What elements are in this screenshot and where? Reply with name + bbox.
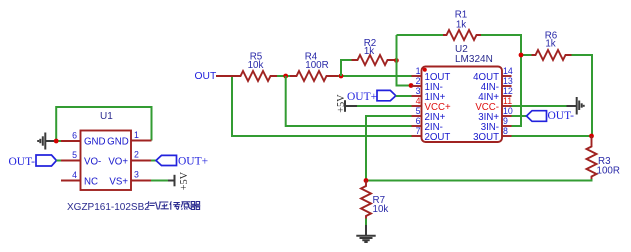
svg-text:11: 11 [503,96,512,106]
svg-text:+5V: +5V [336,94,347,113]
wire: vertical from OUT down to pin7 row [232,76,412,136]
wire: R3 bottom to R7 node [366,179,592,181]
node: junction R4/pin1/R2 [339,74,344,79]
wire: R1 left vertical through R2 junction down to pin2 [397,35,412,86]
pin numbers U1 [72,130,139,180]
svg-text:GND: GND [84,137,106,148]
wire: OUT- flag to pin5 [57,160,63,162]
svg-text:100R: 100R [305,60,328,71]
ground below R7 [356,225,375,242]
svg-text:OUT: OUT [195,71,217,82]
svg-text:3: 3 [134,170,139,180]
wire: pin5 to R7 node [366,116,412,181]
U2 left pin numbers [416,66,421,136]
svg-text:2OUT: 2OUT [425,132,451,143]
svg-text:U1: U1 [100,111,113,122]
node: junction R2 right [394,58,399,63]
svg-text:GND: GND [107,137,129,148]
resistor R5 [216,52,277,82]
svg-text:4: 4 [416,96,421,106]
wire: R6 branch from R1 node [521,54,532,56]
pin 2 (VO+) stub [131,160,151,162]
wire: U1 top loop pin6 junction up-over to pin1 [56,107,151,141]
resistor R1 [443,10,481,41]
svg-text:6: 6 [72,131,77,141]
U2 left pin names [425,72,451,143]
wire: pin8 to R3 [512,135,593,137]
wire: U1 pin6 to ground junction [56,140,62,142]
pin 3 (VS+) stub [131,180,151,182]
svg-text:2: 2 [416,76,421,86]
svg-text:5: 5 [416,106,421,116]
svg-text:5: 5 [72,150,77,160]
U2 left pin stubs 1-7 [412,76,422,136]
svg-text:LM324N: LM324N [455,54,493,65]
resistor R4 [290,52,338,82]
pin 6 (GND) stub [61,140,81,142]
svg-text:+5V: +5V [179,171,190,190]
svg-text:8: 8 [503,126,508,136]
node: junction R5/R4 [283,74,288,79]
wire: +5V to pin4 [357,105,412,107]
svg-text:6: 6 [416,116,421,126]
wire: R7 bottom to ground [365,219,367,227]
svg-text:7: 7 [416,126,421,136]
pin 4 (NC) stub [61,180,81,182]
node: pin1 marker dot inside U2 [423,68,427,72]
wire: OUT+ flag to pin3 [396,95,412,97]
svg-text:VS+: VS+ [109,177,128,188]
node: junction dot at U1 pin6/ground [54,139,59,144]
gan [181,202,191,210]
svg-text:XGZP161-102SB2: XGZP161-102SB2 [67,202,150,213]
wire: junction down to pin6 row [286,76,412,126]
svg-text:10k: 10k [248,60,264,71]
port OUT+ (right of U1) [156,155,208,167]
svg-text:1k: 1k [545,38,555,49]
wire: pin10 to OUT- flag [512,115,527,117]
svg-text:1: 1 [416,66,421,76]
svg-text:1: 1 [134,130,139,140]
svg-text:2: 2 [134,150,139,160]
qi2 [191,202,201,210]
wire: row pin1 under resistors [275,75,291,77]
svg-text:10k: 10k [373,204,389,215]
power +5V at U2 pin4 [336,94,357,113]
port OUT+ into U2 pin3 [347,90,396,102]
svg-text:VO+: VO+ [108,157,128,168]
svg-text:4: 4 [72,170,77,180]
wire: pin3 to +5V [151,180,169,182]
svg-text:1k: 1k [364,46,374,57]
ground left of U1 [38,133,56,150]
qi [148,201,159,209]
port OUT- (left) [9,155,57,168]
svg-text:OUT+: OUT+ [347,91,377,103]
node: junction pin8/R6/R3 [589,134,594,139]
ground right of U2 [567,97,584,115]
svg-text:OUT+: OUT+ [178,155,208,167]
svg-text:VO-: VO- [84,157,101,168]
svg-text:OUT-: OUT- [548,110,575,122]
resistor R2 [352,38,396,65]
node: junction pin2 wire end [409,83,414,88]
power +5V at U1 [168,171,190,190]
ya [159,202,169,209]
svg-text:9: 9 [503,116,508,126]
wire: pin11 to ground right [512,105,568,107]
wire: junction up to R2 left [341,60,352,76]
wire: R1 top horizontal [397,34,444,36]
comment XGZP161-102SB2 pressure sensor label [67,201,200,213]
svg-text:NC: NC [84,177,98,188]
svg-text:1k: 1k [456,20,466,31]
svg-text:10: 10 [503,106,513,116]
wire: R6 right down to pin8 node [572,55,593,136]
pin 5 (VO-) stub [61,160,81,162]
component U1 body [81,131,132,191]
svg-text:13: 13 [503,76,513,86]
svg-text:3OUT: 3OUT [473,132,499,143]
port OUT- at U2 pin10 [527,110,575,122]
node: junction R1/R6/pin9 vertical [519,53,524,58]
U2 right pin stubs 14-8 [502,76,512,136]
resistor R6 [532,31,572,61]
node: junction R7 top [364,178,369,183]
U2 right pin numbers [503,66,513,136]
svg-text:12: 12 [503,86,513,96]
svg-text:OUT-: OUT- [9,156,36,168]
svg-text:14: 14 [503,66,513,76]
resistor R7 [361,181,388,219]
U2 right pin names [473,72,499,143]
wire: pin2 to OUT+ flag [151,160,157,162]
pin 1 (GND) stub [131,140,152,142]
chuan [170,201,180,209]
component U2 body [422,67,503,143]
svg-text:3: 3 [416,86,421,96]
resistor R3 [587,136,620,179]
svg-text:100R: 100R [597,166,620,177]
pin names U1 [84,137,129,188]
